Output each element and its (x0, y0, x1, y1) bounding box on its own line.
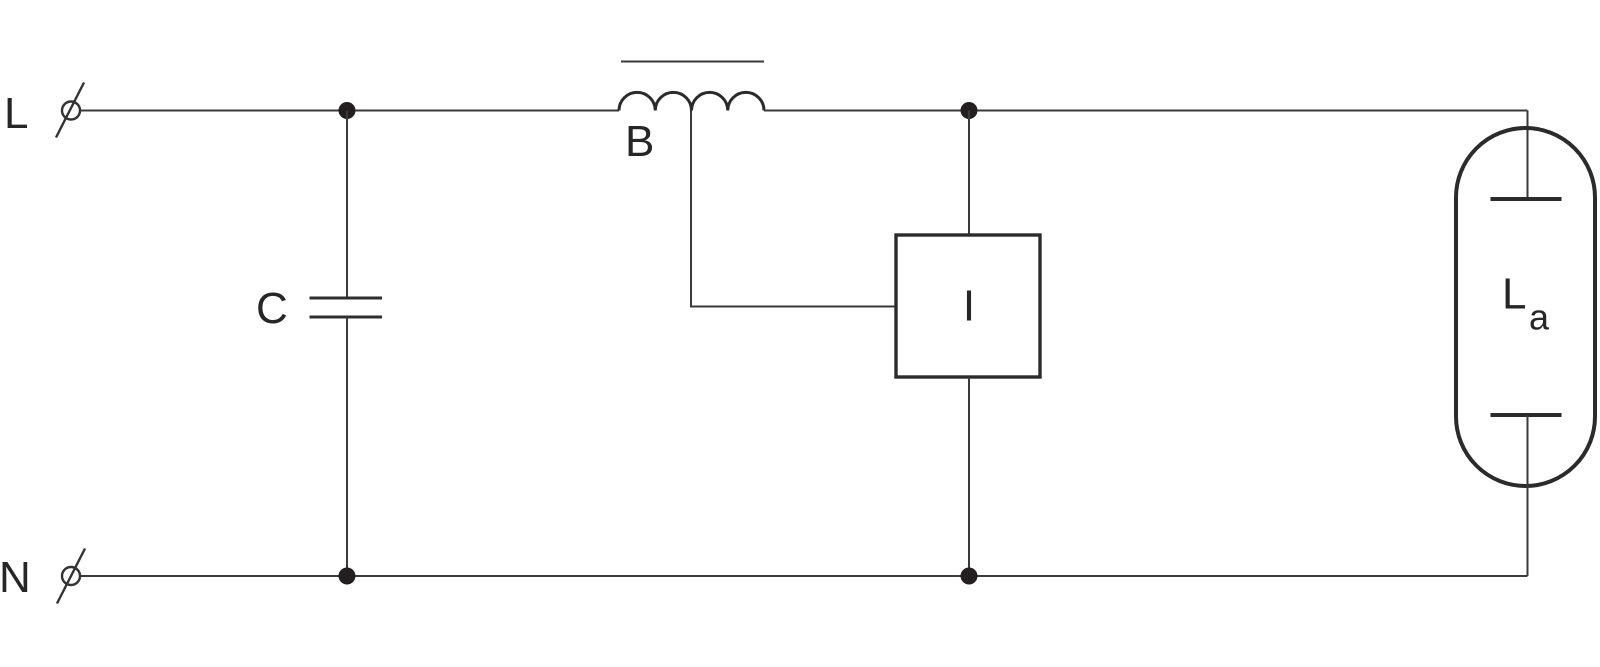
terminal N (57, 549, 85, 604)
svg-text:a: a (1529, 297, 1550, 338)
wire bottom rail (81, 575, 1528, 577)
wire top rail right (ballast to lamp) (764, 110, 1528, 112)
label La (1502, 270, 1550, 338)
svg-text:B: B (625, 117, 654, 166)
lamp La envelope (1456, 128, 1595, 486)
wire ignitor bottom lead (968, 377, 970, 576)
inductor B coil (619, 92, 764, 110)
svg-text:L: L (1502, 270, 1526, 319)
inductor B core bar (621, 61, 764, 63)
wire ballast tap to ignitor (691, 111, 896, 307)
capacitor C (310, 298, 383, 317)
svg-text:C: C (256, 284, 288, 333)
ignitor I box (896, 235, 1040, 377)
lamp electrode bottom (1491, 413, 1562, 417)
wire lamp bottom lead (1527, 415, 1529, 576)
node junction top-right (961, 102, 978, 119)
terminal L (56, 83, 84, 138)
node junction top-left (339, 102, 356, 119)
lamp electrode top (1491, 197, 1562, 201)
node junction bottom-left (339, 568, 356, 585)
wire capacitor top lead (346, 111, 348, 299)
wire ignitor top lead (968, 111, 970, 236)
svg-text:I: I (963, 282, 975, 331)
wire top rail left (terminal L to ballast) (81, 110, 620, 112)
svg-text:N: N (0, 553, 31, 602)
node junction bottom-right (961, 568, 978, 585)
wire lamp top lead (1527, 111, 1529, 200)
wire capacitor bottom lead (346, 317, 348, 576)
svg-text:L: L (4, 89, 28, 138)
